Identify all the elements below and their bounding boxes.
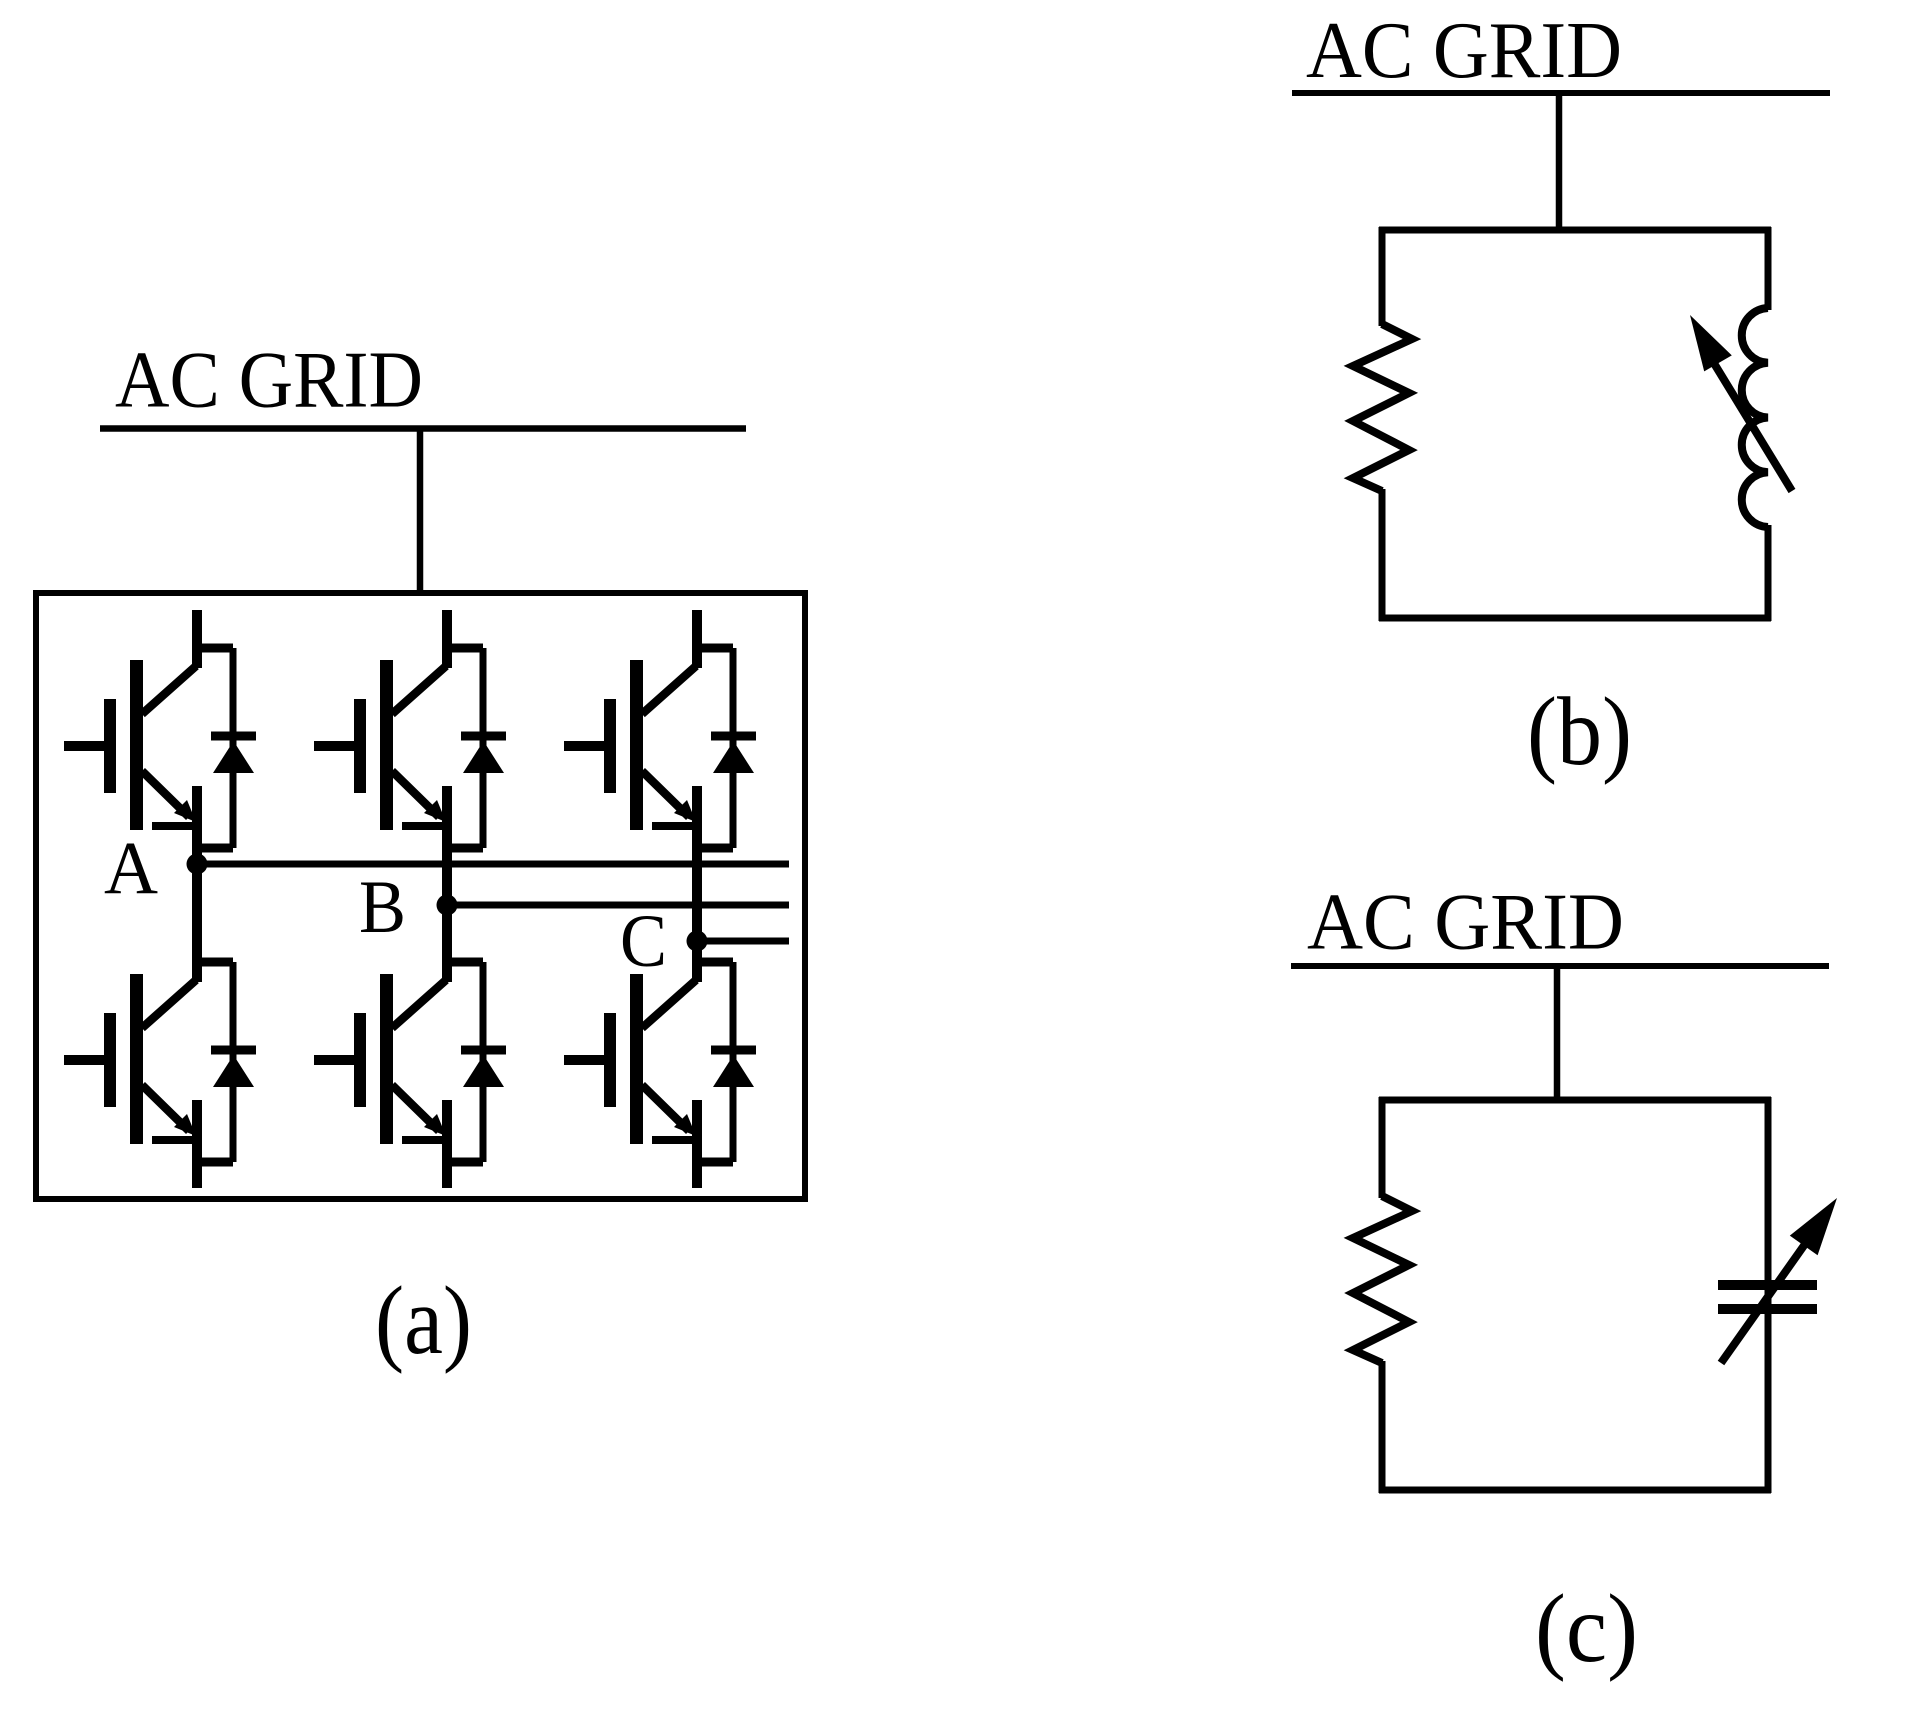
wire: bottom side of RL loop: [1379, 615, 1771, 622]
wire: bus to RC branch (panel c): [1554, 966, 1561, 1103]
wire: Q5 (phase B lower) collector to D5 cathode: [447, 958, 483, 967]
svg-text:(b): (b): [1527, 678, 1632, 786]
wire: bus to RL branch (panel b): [1556, 93, 1563, 233]
diode D2 (antiparallel across Q2 (phase B upper)): [461, 648, 506, 848]
wire: right side of RC loop (through capacitor): [1765, 1097, 1772, 1493]
wire: right side upper (panel b): [1765, 227, 1772, 310]
wire: Q4 (phase A lower) collector to D4 cathode: [197, 958, 233, 967]
diode D6 (antiparallel across Q6 (phase C lower)): [711, 962, 756, 1162]
transistor Q6 (phase C lower) (IGBT): [564, 974, 697, 1188]
wire: top side of RC loop: [1379, 1097, 1771, 1104]
transistor Q5 (phase B lower) (IGBT): [314, 974, 447, 1188]
variability arrow across L1: [1690, 315, 1792, 491]
wire: left side lower (panel c): [1379, 1361, 1386, 1493]
resistor R2 (panel c): [1353, 1196, 1412, 1363]
wire: top side of RL loop: [1379, 227, 1771, 234]
wire: bus to converter box (panel a): [417, 429, 424, 594]
diode D3 (antiparallel across Q3 (phase C upper)): [711, 648, 756, 848]
wire: Q6 (phase C lower) collector to D6 cathode: [697, 958, 733, 967]
wire: phase B leg (Q2 emitter to lower collector): [442, 786, 452, 982]
wire: phase A leg (Q1 emitter to lower collector): [192, 786, 202, 982]
wire: left side lower (panel b): [1379, 489, 1386, 621]
wire: bottom side of RC loop: [1379, 1487, 1771, 1494]
wire: phase C leg (Q3 emitter to lower collector): [692, 786, 702, 982]
svg-text:AC GRID: AC GRID: [1307, 877, 1624, 967]
transistor Q4 (phase A lower) (IGBT): [64, 974, 197, 1188]
svg-text:AC GRID: AC GRID: [115, 335, 423, 425]
node C junction dot: [687, 931, 708, 952]
wire: Q2 (phase B upper) collector to D2 cathode: [447, 644, 483, 653]
wire: left side upper (panel c): [1379, 1097, 1386, 1198]
wire: Q5 (phase B lower) emitter to D5 anode: [447, 1158, 483, 1167]
resistor R1 (panel b): [1353, 324, 1412, 491]
bus bar AC GRID (panel c): [1291, 963, 1829, 969]
node A junction dot: [187, 854, 208, 875]
bus bar AC GRID (panel b): [1292, 90, 1830, 96]
bus bar AC GRID (panel a): [100, 425, 746, 432]
wire: Q1 (phase A upper) emitter to D1 anode: [197, 844, 233, 853]
node B junction dot: [437, 895, 458, 916]
wire: right side lower (panel b): [1765, 525, 1772, 621]
wire: left side upper (panel b): [1379, 227, 1386, 326]
svg-text:A: A: [104, 827, 158, 910]
wire: Q3 (phase C upper) collector to D3 cathode: [697, 644, 733, 653]
transistor Q1 (phase A upper) (IGBT): [64, 610, 197, 830]
wire: Q3 (phase C upper) emitter to D3 anode: [697, 844, 733, 853]
diode D4 (antiparallel across Q4 (phase A lower)): [211, 962, 256, 1162]
svg-text:B: B: [359, 866, 406, 949]
wire: Q4 (phase A lower) emitter to D4 anode: [197, 1158, 233, 1167]
transistor Q2 (phase B upper) (IGBT): [314, 610, 447, 830]
diode D5 (antiparallel across Q5 (phase B lower)): [461, 962, 506, 1162]
svg-text:C: C: [620, 900, 667, 983]
svg-text:(a): (a): [375, 1267, 472, 1375]
wire: Q1 (phase A upper) collector to D1 cathode: [197, 644, 233, 653]
svg-text:AC GRID: AC GRID: [1306, 5, 1622, 95]
wire: phase C output line: [697, 938, 789, 945]
variability arrow across C1: [1721, 1198, 1837, 1363]
capacitor C1 (variable): [1718, 1285, 1817, 1309]
diode D1 (antiparallel across Q1 (phase A upper)): [211, 648, 256, 848]
wire: Q6 (phase C lower) emitter to D6 anode: [697, 1158, 733, 1167]
wire: phase B output line: [447, 902, 789, 909]
wire: Q2 (phase B upper) emitter to D2 anode: [447, 844, 483, 853]
inductor L1 (variable): [1742, 308, 1768, 527]
transistor Q3 (phase C upper) (IGBT): [564, 610, 697, 830]
svg-text:(c): (c): [1535, 1575, 1638, 1683]
wire: phase A output line: [197, 861, 789, 868]
converter box outline (panel a): [36, 593, 805, 1199]
